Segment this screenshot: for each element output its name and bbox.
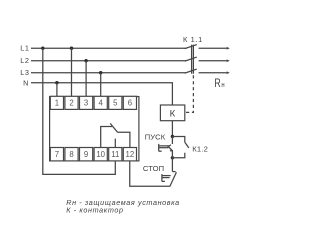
- push button START: [159, 137, 173, 158]
- terminal 9: [80, 148, 93, 161]
- svg-text:R: R: [214, 77, 221, 91]
- contactor coil K: [160, 105, 184, 121]
- wire L3 to terminal 4: [100, 73, 102, 97]
- svg-text:К - контактор: К - контактор: [66, 206, 123, 215]
- terminal 4: [94, 96, 107, 109]
- mechanical link dashed K1.1 to coil K: [186, 75, 193, 112]
- svg-text:L2: L2: [20, 56, 29, 65]
- svg-text:12: 12: [126, 150, 135, 159]
- wire STOP to terminal 12: [130, 161, 171, 186]
- wire N bus to coil K: [31, 83, 172, 105]
- terminal 7: [50, 148, 63, 161]
- svg-text:К: К: [170, 109, 176, 120]
- wire L1 to terminal 11: [43, 48, 116, 174]
- svg-text:3: 3: [84, 98, 88, 107]
- svg-text:н: н: [221, 82, 225, 90]
- junction on L3 terminal 4 tap: [99, 71, 102, 74]
- load label Rн: [214, 77, 225, 91]
- junction on L1 control tap: [41, 47, 44, 50]
- svg-text:11: 11: [111, 150, 119, 159]
- svg-text:К 1.1: К 1.1: [183, 35, 203, 44]
- wire L3 bus: [31, 72, 186, 74]
- svg-text:L3: L3: [20, 68, 29, 77]
- svg-text:ПУСК: ПУСК: [145, 133, 166, 142]
- svg-text:7: 7: [55, 150, 59, 159]
- junction on L1 terminal 2 tap: [70, 47, 73, 50]
- junction node A: [171, 135, 174, 138]
- terminal 8: [65, 148, 78, 161]
- wire L2 bus: [31, 60, 186, 62]
- holding contact K1.2: [172, 137, 188, 158]
- wire K1.1 to load phase 2: [199, 59, 230, 62]
- svg-text:6: 6: [128, 98, 132, 107]
- terminal 5: [109, 96, 122, 109]
- svg-text:8: 8: [69, 150, 73, 159]
- junction on L2 terminal 3 tap: [84, 59, 87, 62]
- svg-text:N: N: [23, 78, 29, 87]
- wire K1.1 to load phase 1: [199, 47, 230, 50]
- wire L1 to terminal 2: [71, 48, 73, 97]
- svg-text:4: 4: [99, 98, 104, 107]
- wire K1.1 to load phase 3: [199, 71, 230, 74]
- push button STOP: [162, 158, 177, 186]
- wire L2 to terminal 3: [85, 61, 87, 97]
- svg-text:СТОП: СТОП: [143, 164, 164, 173]
- junction node B: [171, 156, 174, 159]
- terminal 11: [109, 148, 122, 161]
- device box voltage relay: [50, 97, 139, 161]
- svg-text:L1: L1: [20, 44, 29, 53]
- terminal 6: [123, 96, 136, 109]
- terminal 10: [94, 148, 107, 161]
- svg-text:К1.2: К1.2: [192, 145, 208, 154]
- svg-text:10: 10: [96, 150, 105, 159]
- contact K1.1 three pole: [185, 45, 197, 74]
- wire coil K to control node A: [171, 121, 173, 137]
- terminal 12: [123, 148, 136, 161]
- wire L1 bus: [31, 47, 186, 49]
- terminal 2: [65, 96, 78, 109]
- svg-text:9: 9: [84, 150, 88, 159]
- junction on N terminal 1 tap: [55, 81, 58, 84]
- terminal 1: [50, 96, 63, 109]
- terminal 3: [80, 96, 93, 109]
- svg-text:1: 1: [55, 98, 59, 107]
- wire N to terminal 1: [56, 83, 58, 97]
- internal relay contact terminals 10-11-12: [101, 123, 130, 147]
- svg-text:5: 5: [113, 98, 118, 107]
- svg-text:2: 2: [69, 98, 73, 107]
